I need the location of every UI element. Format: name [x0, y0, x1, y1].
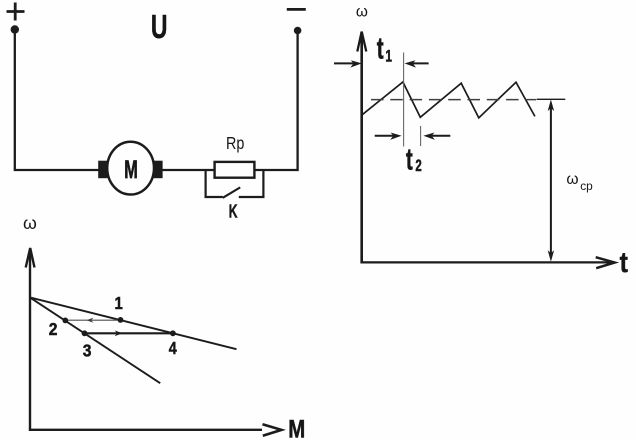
- svg-text:2: 2: [49, 319, 58, 339]
- svg-text:cp: cp: [580, 179, 593, 193]
- svg-text:1: 1: [385, 48, 392, 66]
- svg-text:4: 4: [169, 338, 177, 358]
- svg-text:Rp: Rp: [226, 133, 244, 153]
- svg-text:2: 2: [415, 156, 421, 175]
- svg-text:M: M: [124, 156, 138, 184]
- svg-text:ω: ω: [23, 213, 37, 233]
- svg-text:t: t: [377, 32, 384, 66]
- svg-text:U: U: [151, 9, 168, 46]
- svg-text:ω: ω: [356, 3, 368, 20]
- svg-text:1: 1: [115, 293, 123, 313]
- svg-text:3: 3: [83, 340, 92, 360]
- svg-text:K: K: [229, 200, 238, 221]
- svg-text:t: t: [620, 247, 629, 279]
- svg-text:t: t: [406, 142, 413, 176]
- svg-text:M: M: [288, 416, 305, 441]
- svg-text:ω: ω: [566, 171, 578, 188]
